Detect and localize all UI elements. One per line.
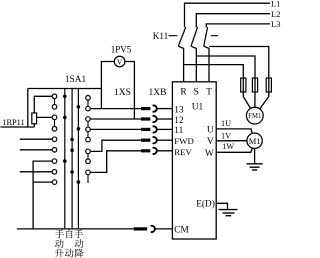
wire fuse2 to FM1	[254, 92, 256, 116]
switch 1SA1 position line 2 (auto)	[71, 89, 73, 229]
svg-text:M1: M1	[249, 136, 261, 146]
svg-text:1SA1: 1SA1	[65, 75, 87, 85]
wire pot top to contact	[34, 96, 54, 113]
svg-text:T: T	[206, 87, 212, 97]
wire pole 1 lower	[178, 46, 183, 82]
wire L2	[196, 14, 270, 28]
wire row 11	[88, 128, 141, 130]
wire 11 socket to U1	[157, 128, 173, 130]
switch 1SA1 left terminal y=117.4	[52, 115, 57, 120]
switch 1SA1 right contact link 119-140	[87, 119, 89, 140]
junction dot position line x=78.4 y=106.8	[77, 105, 81, 109]
svg-text:V: V	[207, 137, 214, 147]
svg-text:U1: U1	[192, 103, 204, 113]
fuse FU1	[241, 78, 246, 92]
switch 1SA1 right terminal y=97.8	[86, 96, 91, 101]
wire left drop to pot	[27, 89, 29, 128]
svg-text:S: S	[194, 87, 199, 97]
wire branch phase 3 to fuse	[209, 47, 269, 79]
wire FWD jog	[88, 140, 141, 151]
wire stub row 150	[20, 149, 55, 151]
fuse FU2	[252, 78, 257, 92]
wire voltmeter right leg	[125, 62, 135, 120]
contactor K11 pole 3 (blade)	[204, 27, 208, 46]
wire row 13 (1XS to plug)	[88, 108, 141, 110]
contactor K11 pole 2 (blade)	[191, 27, 198, 46]
contactor K11 pole 1 (blade)	[178, 27, 186, 46]
connector 1XB pin REV (plug)	[141, 149, 150, 152]
wire pot bottom lead	[33, 124, 35, 127]
wire stub row 172	[20, 171, 55, 173]
switch 1SA1 left terminal y=161.1	[52, 159, 57, 164]
wire 1V	[216, 140, 254, 142]
wire row 12 (1XS to plug)	[88, 118, 141, 120]
wire 1W	[216, 141, 254, 153]
svg-text:1XS: 1XS	[114, 88, 131, 98]
svg-text:1XB: 1XB	[149, 88, 167, 98]
wire CM socket to U1	[155, 228, 172, 230]
switch 1SA1 left terminal y=171.8	[52, 170, 57, 175]
svg-text:1RP11: 1RP11	[2, 118, 25, 127]
wire fuse3 to FM1	[255, 92, 269, 116]
connector 1XB pin REV (socket)	[153, 148, 157, 154]
motor M1	[247, 133, 262, 148]
switch 1SA1 right contact link 151-161	[87, 151, 89, 161]
label char sheng	[55, 249, 64, 258]
svg-text:11: 11	[174, 126, 183, 136]
wire 12 socket to U1	[157, 118, 173, 120]
wire through fuse 2	[254, 79, 256, 93]
switch 1SA1 right contact link 98-109	[87, 98, 89, 109]
label char shou	[74, 230, 83, 239]
wire through fuse 3	[268, 79, 270, 93]
svg-text:FWD: FWD	[174, 136, 194, 146]
inverter U1 box	[172, 82, 216, 239]
svg-text:12: 12	[174, 116, 184, 126]
potentiometer 1RP11	[32, 113, 37, 124]
wire row 182 from CM drop	[33, 181, 54, 183]
wire voltmeter left leg	[101, 62, 114, 109]
svg-text:1U: 1U	[221, 119, 231, 128]
svg-text:W: W	[205, 149, 214, 159]
connector 1XB pin 11 (socket)	[153, 126, 157, 132]
wire pole 3 lower	[204, 46, 209, 82]
switch 1SA1 position line 3 (manual down)	[77, 89, 79, 229]
connector 1XB pin 11 (plug)	[141, 128, 150, 131]
label char dong	[55, 239, 64, 248]
junction dot position line x=78.4 y=182.1	[77, 180, 81, 184]
label char zi	[66, 230, 72, 239]
junction dot position line x=64.8 y=96.3	[63, 95, 67, 99]
switch 1SA1 left terminal y=149.8	[52, 148, 57, 153]
svg-text:1V: 1V	[221, 132, 231, 141]
connector 1XB pin 13 (socket)	[153, 105, 157, 111]
switch 1SA1 right terminal y=129.4	[86, 127, 91, 132]
wire M1 to ground	[254, 148, 256, 163]
junction dot position line x=64.8 y=161.1	[63, 159, 67, 163]
switch 1SA1 left contact link 96-107	[54, 96, 56, 107]
wire fuse1 to FM1	[243, 92, 255, 116]
switch 1SA1 right terminal y=119.0	[86, 117, 91, 122]
wire CM rail	[17, 228, 134, 230]
connector 1XB pin 12 (socket)	[153, 116, 157, 122]
wire 1U	[216, 129, 254, 141]
wire branch phase 2 to fuse	[196, 56, 255, 79]
svg-text:E(D): E(D)	[196, 199, 215, 210]
connector 1XB pin 12 (plug)	[141, 117, 150, 120]
svg-text:13: 13	[174, 106, 184, 116]
junction dot position line x=72.1 y=150.2	[70, 148, 74, 152]
switch 1SA1 left contact link 117-129	[54, 117, 56, 128]
wire through fuse 1	[242, 79, 244, 93]
svg-text:U: U	[207, 125, 214, 135]
switch 1SA1 left terminal y=128.8	[52, 127, 57, 132]
svg-text:FM1: FM1	[248, 113, 261, 120]
label char dong	[65, 249, 74, 258]
wire pot wiper	[37, 116, 55, 118]
wire CM drop corner	[33, 161, 54, 229]
svg-text:CM: CM	[174, 225, 188, 235]
fan motor FM1	[246, 107, 263, 124]
ground (E(D))	[219, 209, 238, 211]
svg-text:R: R	[180, 87, 187, 97]
wire 13 socket to U1	[157, 108, 173, 110]
switch 1SA1 left terminal y=182.1	[52, 180, 57, 185]
ground (motor M1)	[247, 163, 263, 165]
wire pole 2 lower	[191, 46, 196, 82]
wire stub row 139	[20, 138, 55, 140]
connector 1XB pin 13 (plug)	[141, 107, 150, 110]
wire pot bottom to left edge	[1, 126, 35, 128]
voltmeter 1PV5	[114, 56, 125, 67]
wire top rail	[28, 88, 102, 90]
wire L1	[185, 3, 271, 27]
switch 1SA1 left terminal y=96.3	[52, 94, 57, 99]
junction dot position line x=72.1 y=172.0	[70, 170, 74, 174]
label char jiang	[75, 249, 83, 258]
junction dot position line x=72.1 y=139.4	[70, 138, 74, 142]
label char shou	[55, 230, 64, 239]
junction dot position line x=64.8 y=117.4	[63, 116, 67, 120]
switch 1SA1 left terminal y=106.8	[52, 105, 57, 110]
junction dot position line x=78.4 y=128.8	[77, 127, 81, 131]
svg-text:L2: L2	[271, 9, 280, 19]
svg-text:V: V	[117, 58, 123, 67]
svg-text:1PV5: 1PV5	[111, 45, 132, 55]
wire branch phase 1 to fuse	[184, 65, 244, 79]
svg-text:K11: K11	[153, 31, 169, 41]
connector 1XB pin FWD (plug)	[141, 139, 150, 142]
connector 1XB pin CM (socket)	[151, 226, 155, 232]
wire FWD socket to U1	[157, 139, 173, 141]
switch 1SA1 right terminal y=161.3	[86, 159, 91, 164]
wire REV jog	[88, 151, 141, 173]
switch 1SA1 right terminal y=108.6	[86, 106, 91, 111]
wire E(D) to ground	[216, 203, 227, 209]
fuse FU3	[266, 78, 271, 92]
connector 1XB pin CM (plug)	[134, 227, 148, 230]
switch 1SA1 position line 1 (manual up)	[64, 89, 66, 229]
connector 1XB pin FWD (socket)	[153, 137, 157, 143]
svg-text:REV: REV	[174, 147, 192, 157]
switch 1SA1 right terminal y=139.6	[86, 137, 91, 142]
svg-text:L1: L1	[271, 0, 280, 8]
switch 1SA1 left terminal y=139.2	[52, 137, 57, 142]
wire stub below right terminal 172	[87, 175, 89, 183]
label char dong	[75, 239, 84, 248]
svg-text:L3: L3	[271, 19, 280, 29]
wire L3	[206, 24, 270, 27]
contactor K11 linkage dashes	[169, 35, 178, 37]
svg-text:1W: 1W	[222, 142, 234, 151]
switch 1SA1 right terminal y=172.4	[86, 170, 91, 175]
wire REV socket to U1	[157, 150, 173, 152]
switch 1SA1 right terminal y=151.4	[86, 149, 91, 154]
